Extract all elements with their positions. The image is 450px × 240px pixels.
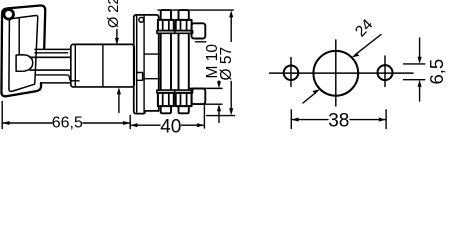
svg-text:6,5: 6,5 (426, 59, 447, 85)
svg-text:Ø 57: Ø 57 (218, 47, 235, 81)
svg-text:66,5: 66,5 (52, 114, 83, 131)
svg-text:24: 24 (352, 16, 376, 40)
svg-text:38: 38 (328, 110, 349, 131)
svg-text:Ø 22: Ø 22 (106, 0, 122, 28)
svg-text:40: 40 (160, 116, 181, 137)
